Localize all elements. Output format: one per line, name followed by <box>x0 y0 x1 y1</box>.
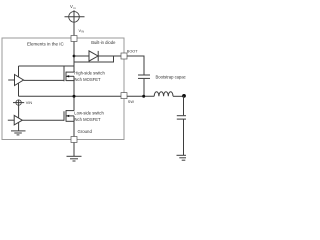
wire: inductor to output <box>173 95 184 97</box>
IC boundary box <box>2 38 124 140</box>
svg-text:BOOT: BOOT <box>127 49 138 53</box>
wire: cap to ground <box>183 120 185 156</box>
supply VIN for low driver <box>13 100 24 118</box>
wire: output down to cap <box>183 96 185 115</box>
wire: junction to diode <box>74 55 89 57</box>
op-amp low-side driver <box>8 115 22 130</box>
wire: VIN pin down to drain <box>73 42 75 73</box>
svg-text:Low-side switch: Low-side switch <box>74 111 104 116</box>
pin V_IN <box>71 36 77 42</box>
wire: driver output to gate <box>24 79 65 81</box>
svg-text:Nch MOSFET: Nch MOSFET <box>75 117 101 122</box>
node: VIN junction dot <box>73 55 76 58</box>
svg-text:Elements in the IC: Elements in the IC <box>27 42 65 47</box>
pin Ground <box>71 137 77 143</box>
svg-text:Built-in diode: Built-in diode <box>91 40 116 45</box>
capacitor bootstrap <box>138 75 150 96</box>
svg-text:in: in <box>73 6 76 10</box>
inductor L1 <box>154 92 173 97</box>
wire: boot to bootstrap cap <box>127 56 144 75</box>
capacitor output <box>177 116 186 119</box>
wire: SW pin to inductor <box>127 95 154 97</box>
svg-text:SW: SW <box>128 100 135 104</box>
wire: low driver output to gate <box>22 119 64 121</box>
svg-text:High-side switch: High-side switch <box>74 71 105 76</box>
transistor Q2 low-side MOSFET <box>64 110 74 121</box>
wire: high driver top rail <box>19 65 75 67</box>
wire: low source to ground pin <box>73 116 75 137</box>
svg-text:VIN: VIN <box>26 101 33 105</box>
ground output <box>177 155 187 160</box>
svg-text:Ground: Ground <box>78 129 93 134</box>
node: output junction dot <box>182 94 186 98</box>
wire: SW rail <box>19 95 122 97</box>
ground low driver <box>11 131 26 135</box>
wire: boot net to high-side gate <box>74 56 114 62</box>
node SW junction <box>73 95 76 98</box>
op-amp high-side driver <box>8 66 23 96</box>
pin BOOT <box>121 53 127 59</box>
wire: ground pin to earth <box>73 143 75 157</box>
diode D1 built-in <box>89 51 121 61</box>
svg-text:IN: IN <box>81 30 84 34</box>
wire: source/body down to SW node <box>73 76 75 110</box>
transistor Q1 high-side MOSFET <box>64 66 74 81</box>
ground external <box>67 156 82 161</box>
svg-text:Bootstrap capacitor: Bootstrap capacitor <box>156 74 187 79</box>
pin SW <box>121 93 127 99</box>
svg-text:Nch MOSFET: Nch MOSFET <box>75 77 101 82</box>
source Vin symbol <box>65 10 85 35</box>
node: cap junction dot <box>142 95 145 98</box>
